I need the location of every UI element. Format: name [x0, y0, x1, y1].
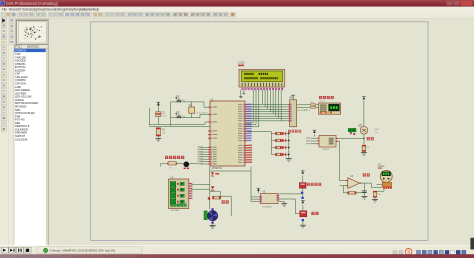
svg-text:10k: 10k: [162, 133, 165, 135]
LED D4: [282, 153, 285, 156]
wire U2 to LDR rail: [338, 137, 364, 139]
label 4路指示灯: [288, 130, 291, 133]
diode D6: [211, 186, 215, 189]
sheet border: [91, 22, 429, 241]
bottom strip: [0, 254, 474, 258]
svg-text:Graph: Graph: [38, 7, 47, 11]
LCD pin name labels: [241, 83, 244, 86]
svg-text:AT89C52: AT89C52: [15, 49, 27, 53]
wire LCD control RS RW E to P2: [252, 90, 254, 123]
svg-text:Tools: Tools: [22, 7, 29, 11]
wire keypad to fan net: [191, 183, 210, 185]
keypad module pins: [189, 183, 191, 184]
message indicator: [43, 248, 47, 252]
LDR LDR1: [360, 127, 368, 135]
svg-text:KEYPAD: KEYPAD: [171, 209, 180, 212]
LED D3: [282, 146, 285, 149]
svg-text:LDR1: LDR1: [374, 129, 380, 131]
resistor R3: [297, 106, 319, 108]
wire MCU to U5: [250, 166, 252, 201]
crystal X1: [191, 102, 193, 107]
svg-text:11.0592MHz: 11.0592MHz: [196, 112, 207, 114]
capacitor C4: [363, 183, 365, 190]
svg-text:LDR: LDR: [374, 132, 379, 134]
tray icons: [393, 251, 397, 254]
menu bar: [0, 7, 474, 12]
MCU right pins P2: [245, 124, 247, 125]
ground LDR: [361, 152, 367, 154]
title bar: [0, 0, 474, 7]
label 光敏 (LDR): [367, 137, 370, 140]
left mode toolbar: [0, 19, 8, 246]
wire opamp output: [360, 183, 382, 188]
dark corner block: [470, 238, 474, 250]
wire LED bus: [247, 131, 272, 133]
origin marker: [210, 226, 214, 228]
power VCC U5: [257, 189, 259, 194]
U2 left pins: [317, 138, 319, 139]
resistor LED row 4: [271, 154, 275, 156]
U2 right pins: [336, 138, 338, 139]
resistor R1 10k: [156, 128, 160, 136]
wire gauge left stub: [376, 184, 382, 186]
transistor Q2 servo: [300, 211, 307, 217]
wire loop: [210, 191, 231, 216]
power VCC reset: [157, 103, 159, 112]
fan motor: [204, 211, 207, 220]
wire fan feed: [209, 171, 211, 210]
label 空气质量: [307, 183, 310, 186]
object selector header: [14, 45, 48, 49]
capacitor C1 10uF: [156, 112, 161, 114]
ground reset: [155, 138, 161, 140]
svg-text:TXD: TXD: [310, 102, 314, 104]
resistor R7 fan: [213, 196, 221, 199]
sensor U2 DHT11: [319, 135, 336, 147]
toolbar: [0, 11, 474, 18]
svg-text:LCD1: LCD1: [238, 60, 245, 64]
power VCC Q1: [302, 175, 304, 182]
svg-text:Edit: Edit: [16, 7, 21, 11]
svg-text:RP1: RP1: [290, 97, 295, 100]
resistor LED row 3: [271, 147, 275, 149]
sounder LS1: [184, 162, 189, 167]
LED D2: [282, 139, 285, 142]
LDR brightness control: [348, 128, 356, 131]
label 舵机 (servo): [311, 212, 314, 215]
device list: [14, 49, 48, 248]
wire XTAL1 rail: [171, 102, 208, 107]
svg-text:S: S: [407, 250, 410, 255]
wire U5 to servo Q2: [279, 199, 301, 214]
button K1: [161, 163, 184, 165]
wire XTAL2 rail: [171, 114, 208, 117]
power VCC Q2: [302, 205, 304, 211]
pressure gauge pads: [383, 187, 385, 189]
wire crystal left vertical: [170, 102, 172, 126]
pressure gauge body: [380, 170, 392, 182]
bluetooth module pads: [320, 112, 322, 114]
status bar: [0, 246, 474, 255]
diode D5: [211, 172, 214, 175]
wire U2 to opamp: [338, 141, 340, 180]
wire U5 to Q1: [279, 193, 301, 195]
sim control buttons: [1, 247, 8, 253]
ground opamp: [361, 195, 367, 197]
svg-text:RXD: RXD: [304, 110, 309, 112]
svg-text:DEVICES: DEVICES: [27, 45, 39, 49]
resistor R8: [363, 134, 365, 145]
svg-text:DHT11: DHT11: [322, 149, 330, 151]
MCU left pins XTAL1 XTAL2 RST EA: [208, 107, 210, 108]
wire ground rail: [150, 125, 210, 127]
resistor R10: [373, 191, 377, 197]
resistor LED row 2: [271, 140, 275, 142]
node LDR junction: [363, 138, 365, 140]
LCD screen text line 2: [244, 77, 245, 79]
power VCC LDR: [363, 100, 365, 126]
resistor R2: [297, 104, 319, 106]
overview window: [16, 20, 49, 45]
LCD power wires (VSS VDD VEE): [240, 90, 242, 97]
MCU right pins P0: [245, 104, 247, 105]
svg-text:ANIMATING: 00:00:58.950000 (CP: ANIMATING: 00:00:58.950000 (CPU load 2%): [62, 248, 115, 252]
svg-text:10uF: 10uF: [162, 116, 167, 118]
bluetooth module U7: [319, 103, 341, 114]
svg-text:P: P: [15, 45, 17, 49]
MCU P1 pins: [208, 147, 210, 148]
ground LED bank: [286, 158, 292, 160]
schematic canvas: [15, 244, 474, 247]
svg-text:ISIS Professional (Animating): ISIS Professional (Animating): [6, 1, 58, 6]
label 按键指示灯 (key indicator): [165, 156, 168, 159]
svg-text:ULN2003A: ULN2003A: [15, 137, 28, 141]
wire opamp inputs: [340, 180, 348, 182]
pressure gauge base: [382, 182, 391, 187]
svg-text:ULN2003: ULN2003: [263, 207, 273, 209]
svg-text:File: File: [2, 7, 7, 11]
svg-text:Help: Help: [93, 7, 99, 11]
status text: [60, 247, 142, 254]
orientation toolbar: [8, 19, 15, 246]
wire bus LCD data D0-D7 to P0 and RP1: [261, 90, 263, 105]
transistor Q1: [299, 183, 306, 189]
label 风扇 (fan): [222, 200, 225, 203]
ground gauge: [374, 197, 376, 199]
ground U5: [279, 201, 284, 203]
ground Q2: [302, 221, 304, 225]
resistor LED row 1: [271, 133, 275, 135]
label 蓝牙模块 (bluetooth): [319, 96, 322, 99]
ground fan: [212, 222, 214, 226]
MCU right pins P3: [245, 145, 247, 146]
LCD screen text line 1: [244, 73, 245, 75]
wire RST net: [150, 122, 209, 124]
LCD LCD1 LM016L: [239, 69, 285, 87]
wire MCU ground bus: [210, 166, 251, 171]
power VCC U2: [313, 134, 315, 137]
LCD pin numbers: [241, 88, 244, 90]
LED D1: [282, 132, 285, 135]
svg-text:AT89C52: AT89C52: [212, 167, 223, 170]
resistor R9: [348, 192, 356, 195]
label 压力 (pressure): [363, 173, 366, 176]
